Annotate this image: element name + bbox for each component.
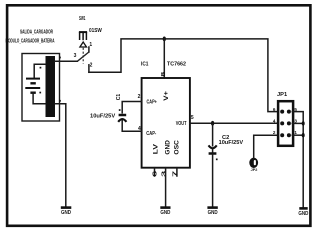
svg-text:2: 2 xyxy=(138,94,141,100)
svg-text:GND: GND xyxy=(61,210,71,216)
svg-text:JP1: JP1 xyxy=(277,92,287,98)
svg-text:5: 5 xyxy=(191,115,194,121)
IC1 pin name V+ xyxy=(163,91,170,101)
IC1 pin name GND xyxy=(164,140,171,155)
svg-text:LV: LV xyxy=(152,143,159,154)
svg-text:CAP-: CAP- xyxy=(146,131,156,137)
op-amp/IC U1 labels xyxy=(141,61,186,67)
svg-text:6: 6 xyxy=(152,171,158,177)
capacitor C2 value xyxy=(219,140,244,146)
JP1 pin 6 number xyxy=(273,107,276,112)
svg-text:1: 1 xyxy=(294,130,297,135)
capacitor C2 xyxy=(209,145,218,160)
wire JP2 to JP1 pin 2 xyxy=(254,135,278,158)
svg-text:10uF/25V: 10uF/25V xyxy=(219,140,244,146)
wire JP1 pin 1 stub xyxy=(292,134,303,136)
svg-text:4: 4 xyxy=(273,118,276,123)
JP1 pin 4 number xyxy=(273,118,276,123)
wire IC pin 3 to GND xyxy=(165,168,167,207)
svg-text:V+: V+ xyxy=(163,91,170,101)
svg-text:CAP+: CAP+ xyxy=(147,100,158,106)
jumper JP2 pad xyxy=(249,158,258,168)
svg-text:3: 3 xyxy=(161,171,167,177)
ground GND2 xyxy=(160,208,170,217)
wire IC pin 2 to C1 xyxy=(122,102,141,113)
wire C1 to IC pin 4 xyxy=(122,121,141,131)
junction node V+ at IC pin 8 xyxy=(163,37,166,42)
IC1 TC7662 body xyxy=(142,78,190,168)
svg-text:MODULO_CARGADOR_BATERIA: MODULO_CARGADOR_BATERIA xyxy=(6,38,55,44)
svg-text:8: 8 xyxy=(161,72,167,77)
IC1 pin 6 stub xyxy=(154,168,156,176)
connector JP1 pads xyxy=(280,110,291,138)
IC1 pin 3 number xyxy=(161,171,167,177)
svg-text:SW1: SW1 xyxy=(79,16,85,22)
capacitor C1 designator xyxy=(116,94,122,101)
svg-text:JP2: JP2 xyxy=(251,168,258,172)
svg-text:GND: GND xyxy=(160,210,170,216)
IC1 pin 7 number xyxy=(173,171,179,177)
ground GND3 xyxy=(207,208,217,217)
JP1 pin 1 number xyxy=(294,130,297,135)
jumper JP2 label xyxy=(251,168,258,172)
battery module B1 labels xyxy=(6,30,55,45)
JP1 pin 3 number xyxy=(294,118,297,123)
wire VOUT to JP1 pin 4 xyxy=(190,122,278,124)
svg-text:6: 6 xyxy=(273,107,276,112)
battery module contact bar xyxy=(46,56,56,117)
svg-text:IC1: IC1 xyxy=(141,61,149,67)
svg-text:VOUT: VOUT xyxy=(176,121,187,127)
wire battery- to GND xyxy=(55,100,66,207)
JP1 pin 2 number xyxy=(273,130,276,135)
svg-text:OSC: OSC xyxy=(174,140,181,155)
battery module outline xyxy=(22,54,60,122)
svg-text:2: 2 xyxy=(273,130,276,135)
ground GND4 xyxy=(298,208,308,217)
svg-text:TC7662: TC7662 xyxy=(167,61,186,67)
svg-text:7: 7 xyxy=(173,171,179,177)
svg-text:GND: GND xyxy=(164,140,171,155)
capacitor C1 value xyxy=(90,114,115,120)
svg-text:3: 3 xyxy=(74,53,77,59)
connector JP1 body xyxy=(278,101,293,146)
svg-text:GND: GND xyxy=(208,210,218,216)
svg-text:2: 2 xyxy=(90,63,93,69)
IC1 pin 2 CAP+ xyxy=(138,94,158,106)
IC1 pin 4 CAP- xyxy=(138,126,156,137)
wire C2 to GND xyxy=(212,154,214,207)
IC1 pin 8 number xyxy=(161,72,167,77)
wire switch pin2 to V+ rail xyxy=(89,39,278,112)
svg-text:1: 1 xyxy=(89,42,92,48)
wire VOUT to C2 xyxy=(212,123,214,153)
svg-text:10uF/25V: 10uF/25V xyxy=(90,114,115,120)
ground GND1 xyxy=(61,208,72,217)
junction node VOUT/C2 xyxy=(211,121,214,126)
IC1 pin name LV xyxy=(152,143,159,154)
capacitor C1 xyxy=(118,109,126,122)
JP1 pin 5 number xyxy=(294,107,297,112)
IC1 pin 7 stub xyxy=(176,168,178,176)
IC1 pin name OSC xyxy=(174,140,181,155)
svg-text:C1: C1 xyxy=(116,94,122,101)
connector JP1 label xyxy=(277,92,287,98)
wire battery+ to switch pin 3 xyxy=(55,57,77,62)
IC1 pin 6 number xyxy=(152,171,158,177)
battery cell symbol xyxy=(25,64,45,104)
wire JP1 pin 5 to GND rail xyxy=(292,112,303,207)
wire JP1 pin 3 stub xyxy=(292,122,303,124)
svg-text:01SW: 01SW xyxy=(89,28,102,34)
svg-text:GND: GND xyxy=(298,211,308,217)
switch SW1 xyxy=(74,16,103,73)
IC1 pin 5 VOUT xyxy=(176,115,194,127)
capacitor C2 designator xyxy=(222,135,229,141)
wire V+ rail to IC pin 8 xyxy=(163,39,165,78)
junction node pin3 xyxy=(302,121,305,125)
svg-text:SALIDA_CARGADOR: SALIDA_CARGADOR xyxy=(20,30,53,36)
junction node pin1 xyxy=(302,133,305,137)
